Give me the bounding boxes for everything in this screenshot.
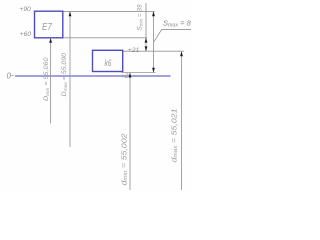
level line +60 (63, 37, 147, 39)
svg-text:+2: +2 (121, 73, 129, 80)
svg-text:+90: +90 (19, 6, 31, 13)
svg-text:+60: +60 (19, 31, 31, 38)
Smin arrow up (inside, to +60) (145, 38, 148, 43)
Dmax text (61, 53, 68, 97)
shaft tolerance zone k6 box (93, 50, 123, 71)
Dmax dimension line (69, 12, 71, 147)
Smin arrow down (inside, to +21) (145, 46, 148, 51)
svg-text:E7: E7 (42, 22, 52, 33)
svg-text:Dmin = 55,060: Dmin = 55,060 (43, 57, 50, 101)
dmax text (171, 108, 179, 162)
zero label dash (12, 75, 14, 77)
Smax arrow up (152, 11, 155, 16)
dmin text (121, 133, 129, 185)
dmin arrow up (129, 73, 132, 78)
svg-text:Smin = 39: Smin = 39 (137, 4, 144, 31)
Dmax arrow up (69, 11, 72, 16)
hole tolerance zone E7 box (35, 11, 63, 38)
svg-text:0: 0 (7, 72, 12, 81)
Smin dimension line (145, 3, 147, 51)
svg-text:+21: +21 (128, 47, 140, 54)
level line +90 (63, 10, 155, 12)
svg-text:k6: k6 (105, 58, 112, 68)
Smax arrow down (152, 68, 155, 73)
Smin text (rotated) (137, 4, 144, 31)
Smax dimension line (153, 11, 155, 72)
level line +2 (122, 72, 156, 74)
Dmin text (43, 57, 50, 101)
Dmin dimension line (50, 39, 52, 124)
Smax leader line (154, 29, 191, 41)
dmax arrow up (180, 51, 183, 56)
Dmin arrow up (49, 38, 52, 43)
dmin dimension line (129, 74, 131, 191)
dmax dimension line (181, 52, 183, 190)
svg-text:Dmax = 55,090: Dmax = 55,090 (61, 53, 68, 97)
level line +21 (123, 50, 184, 52)
svg-text:dmax = 55,021: dmax = 55,021 (171, 108, 179, 162)
zero line (15, 75, 171, 77)
svg-text:dmin = 55,002: dmin = 55,002 (121, 133, 129, 185)
